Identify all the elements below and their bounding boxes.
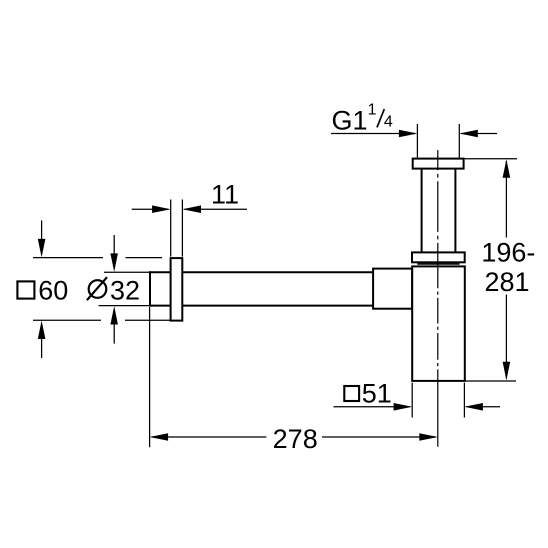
square51 label: [344, 386, 359, 401]
vertical outlet pipe: [421, 169, 423, 253]
svg-text:4: 4: [384, 114, 393, 131]
Ø32 extension line bottom: [99, 305, 150, 307]
square60 top arrow: [41, 220, 43, 241]
svg-text:196-: 196-: [481, 237, 535, 267]
196-281 vertical dimension line with arrows: [505, 161, 507, 238]
svg-text:51: 51: [362, 378, 392, 408]
11 dimension line left with arrow: [132, 208, 169, 210]
seal band under lower flange: [417, 263, 459, 265]
G1 1/4 dimension line right with arrow: [461, 133, 497, 135]
square51 dimension line left with arrow: [334, 406, 411, 408]
diameter32 label: [89, 280, 107, 298]
svg-text:32: 32: [110, 276, 140, 306]
svg-text:278: 278: [273, 424, 318, 454]
wall flange (□60 escutcheon): [171, 258, 183, 321]
svg-text:1: 1: [368, 101, 377, 118]
278 dimension line with arrows: [152, 436, 267, 438]
lower flange of vertical pipe: [412, 252, 465, 262]
196-281 bottom reference line: [465, 380, 516, 382]
G1 1/4 dimension: right extension line: [458, 124, 460, 158]
11 dimension: extension lines above wall flange: [170, 200, 172, 257]
square60 bottom arrow: [41, 337, 43, 358]
square51 dimension line right with arrow: [466, 406, 500, 408]
G1 1/4 dimension: left extension line: [416, 124, 418, 158]
196-281 top reference line: [464, 158, 517, 160]
Ø32 extension line top: [104, 271, 150, 273]
G1 1/4 dimension line left with arrow: [331, 133, 415, 135]
square60 top extension line: [33, 257, 103, 259]
horizontal inlet pipe (Ø32): [150, 271, 374, 273]
svg-text:11: 11: [211, 180, 239, 210]
svg-text:60: 60: [38, 276, 68, 306]
square51 extension lines below body: [411, 383, 413, 418]
svg-text:281: 281: [484, 267, 529, 297]
trap body (□51): [412, 266, 465, 381]
diameter32 bottom arrow: [113, 323, 115, 344]
top flange of vertical pipe: [413, 159, 464, 169]
square60 label: [17, 281, 34, 298]
connector nut: [373, 269, 412, 309]
diameter32 top arrow: [113, 235, 115, 256]
vertical centerline (dash-dot): [437, 150, 439, 447]
square60 bottom extension line: [33, 319, 101, 321]
svg-text:G1: G1: [332, 105, 368, 135]
278 left extension line: [149, 307, 151, 447]
11 dimension line right with arrow: [185, 208, 248, 210]
